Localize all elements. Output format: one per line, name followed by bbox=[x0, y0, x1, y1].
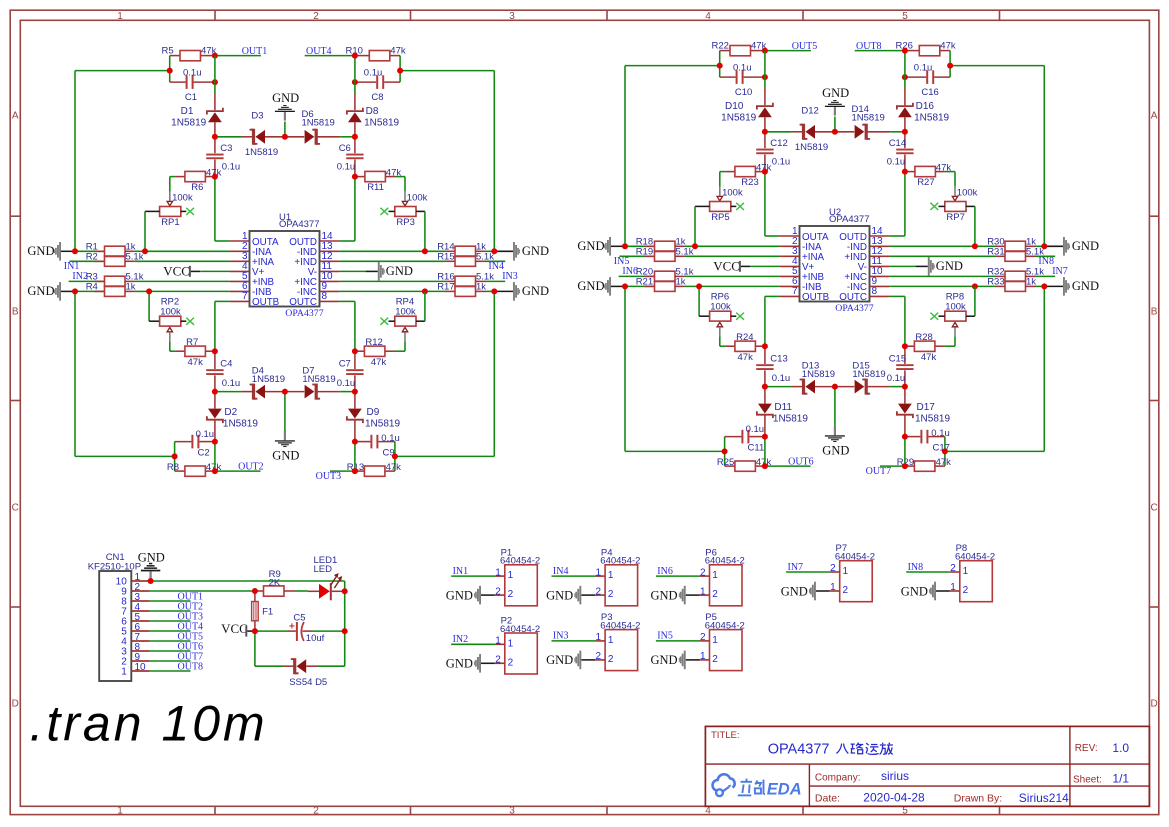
junction R1 left bbox=[72, 248, 78, 254]
power GND P7 bbox=[781, 582, 830, 601]
wire to D4 bbox=[215, 391, 242, 393]
svg-text:1: 1 bbox=[508, 570, 514, 581]
wire pin13 bbox=[889, 245, 995, 247]
svg-text:1k: 1k bbox=[126, 282, 136, 293]
svg-text:RP3: RP3 bbox=[396, 217, 414, 228]
wire pin5 bbox=[135, 280, 230, 282]
svg-text:R23: R23 bbox=[741, 177, 758, 188]
svg-text:100k: 100k bbox=[172, 192, 193, 203]
wire top-right loop bbox=[400, 71, 494, 252]
wire CN1 OUT7 bbox=[150, 660, 191, 662]
svg-text:640454-2: 640454-2 bbox=[500, 624, 540, 635]
wire R28 to RP8 bbox=[944, 336, 955, 346]
svg-text:R15: R15 bbox=[437, 252, 454, 263]
svg-text:Sirius214: Sirius214 bbox=[1019, 791, 1069, 805]
resistor R9 2K bbox=[255, 569, 308, 596]
wire pin1 riser bbox=[765, 172, 780, 236]
wire R27 to RP7 bbox=[945, 172, 955, 187]
junction center bottom bbox=[832, 384, 838, 390]
wire C2 parallel bbox=[214, 442, 216, 472]
junction C8 left bbox=[352, 79, 358, 85]
net label IN8 bbox=[1038, 256, 1054, 267]
svg-text:0.1u: 0.1u bbox=[381, 433, 400, 444]
fuse F1 bbox=[252, 591, 274, 631]
svg-text:OPA4377: OPA4377 bbox=[829, 214, 870, 225]
junction CN1 pin1 bbox=[148, 578, 154, 584]
wire OUT3 bbox=[330, 470, 355, 472]
svg-text:OUT2: OUT2 bbox=[238, 462, 264, 473]
svg-text:5: 5 bbox=[902, 11, 908, 22]
svg-text:10uf: 10uf bbox=[306, 633, 325, 644]
resistor R29 47k bbox=[897, 457, 951, 471]
wire C11 parallel bbox=[764, 437, 766, 467]
wire IN8 to P8 bbox=[906, 571, 950, 573]
potentiometer RP5 100k bbox=[695, 187, 743, 224]
potentiometer RP6 100k bbox=[699, 292, 736, 337]
net label OUT7 bbox=[866, 466, 892, 477]
svg-text:VCC: VCC bbox=[713, 258, 740, 273]
svg-text:2K: 2K bbox=[269, 578, 281, 589]
svg-text:R24: R24 bbox=[736, 332, 753, 343]
junction center bottom bbox=[282, 389, 288, 395]
resistor R20 5.1k bbox=[619, 267, 694, 282]
net label OUT8 CN1 bbox=[178, 662, 204, 673]
junction R9 left bbox=[252, 588, 258, 594]
svg-text:0.1u: 0.1u bbox=[337, 378, 356, 389]
svg-text:1N5819: 1N5819 bbox=[914, 112, 949, 123]
svg-text:C3: C3 bbox=[220, 143, 232, 154]
junction R4 right bbox=[146, 288, 152, 294]
wire OUT node down bbox=[214, 56, 216, 93]
net label OUT4 bbox=[306, 46, 332, 57]
wire C2 left corner bbox=[174, 442, 176, 457]
junction R12 left bbox=[352, 348, 358, 354]
svg-text:GND: GND bbox=[822, 86, 849, 100]
junction D16 bottom bbox=[902, 129, 908, 135]
wire bottom-left loop bbox=[625, 450, 725, 452]
net label IN6 bbox=[622, 266, 638, 277]
junction R1 right bbox=[142, 248, 148, 254]
wire top-left loop bbox=[75, 71, 170, 252]
svg-text:2: 2 bbox=[495, 655, 501, 666]
svg-text:GND: GND bbox=[138, 550, 165, 564]
net label IN2 bbox=[72, 271, 88, 282]
wire R26 right to loop bbox=[949, 51, 951, 78]
net label OUT1 bbox=[242, 46, 268, 57]
wire RP1 to R1 node bbox=[144, 211, 146, 251]
wire CN1 OUT8 bbox=[150, 670, 191, 672]
wire top-left loop bbox=[625, 66, 720, 247]
svg-text:Drawn By:: Drawn By: bbox=[954, 793, 1002, 805]
junction R33 left bbox=[972, 283, 978, 289]
wire IN1 to P1 bbox=[451, 575, 495, 577]
svg-text:R21: R21 bbox=[636, 277, 653, 288]
svg-text:D3: D3 bbox=[251, 110, 263, 121]
power GND row R33 bbox=[1044, 277, 1099, 296]
svg-text:OUT3: OUT3 bbox=[316, 471, 342, 482]
svg-text:1N5819: 1N5819 bbox=[364, 117, 399, 128]
svg-text:100k: 100k bbox=[395, 306, 416, 317]
capacitor C9 0.1u bbox=[355, 433, 400, 458]
net label IN7 P7 bbox=[788, 562, 804, 573]
power VCC port CN1 bbox=[221, 621, 255, 637]
node OUT8 junction bbox=[902, 48, 908, 54]
power GND P8 bbox=[901, 582, 950, 601]
resistor R1 1k bbox=[75, 242, 145, 257]
svg-text:.tran 10m: .tran 10m bbox=[30, 695, 268, 751]
svg-text:1N5819: 1N5819 bbox=[773, 413, 808, 424]
wire pin2 bbox=[145, 250, 230, 252]
svg-text:2: 2 bbox=[843, 585, 849, 596]
wire RP2 to R7 bbox=[170, 341, 176, 351]
resistor R26 47k bbox=[896, 40, 956, 56]
net label OUT7 CN1 bbox=[178, 652, 204, 663]
svg-text:2: 2 bbox=[963, 585, 969, 596]
svg-text:0.1u: 0.1u bbox=[931, 428, 950, 439]
svg-text:GND: GND bbox=[27, 244, 54, 258]
capacitor C2 0.1u bbox=[175, 429, 215, 458]
svg-text:2: 2 bbox=[508, 657, 514, 668]
junction C5 right bbox=[342, 628, 348, 634]
ground GND top earth bbox=[272, 91, 299, 137]
svg-text:2: 2 bbox=[508, 589, 514, 600]
capacitor C14 0.1u bbox=[887, 132, 914, 172]
svg-text:D: D bbox=[1150, 699, 1157, 710]
svg-text:100k: 100k bbox=[710, 301, 731, 312]
wire R6 to RP1 bbox=[170, 177, 176, 192]
resistor R25 47k bbox=[717, 457, 772, 471]
potentiometer RP3 100k bbox=[389, 192, 428, 229]
net label IN7 bbox=[1052, 266, 1068, 277]
svg-text:47k: 47k bbox=[386, 462, 402, 473]
svg-text:IN3: IN3 bbox=[553, 631, 569, 642]
diode D5 SS54 bbox=[255, 659, 345, 688]
svg-text:C13: C13 bbox=[770, 354, 787, 365]
LED LED1 bbox=[308, 555, 345, 600]
diode D4 1N5819 bbox=[241, 365, 285, 398]
wire CN1 OUT5 bbox=[150, 640, 191, 642]
svg-text:OPA4377: OPA4377 bbox=[768, 742, 834, 758]
wire CN1 pin1 GND net bbox=[150, 581, 345, 591]
svg-text:1: 1 bbox=[117, 806, 123, 817]
svg-text:1N5819: 1N5819 bbox=[245, 147, 278, 158]
wire pin12 bbox=[889, 255, 995, 257]
svg-text:OUTB: OUTB bbox=[252, 297, 280, 308]
junction C1 right bbox=[212, 79, 218, 85]
svg-text:47k: 47k bbox=[940, 40, 956, 51]
junction R27 left bbox=[902, 169, 908, 175]
wire to D13 bbox=[765, 386, 792, 388]
capacitor C6 0.1u bbox=[337, 137, 364, 177]
wire R23 to RP5 bbox=[720, 172, 726, 187]
svg-text:D2: D2 bbox=[224, 407, 237, 418]
wire D7 to C7 bbox=[340, 391, 355, 393]
svg-text:7: 7 bbox=[242, 291, 248, 302]
svg-text:GND: GND bbox=[27, 284, 54, 298]
logo LCEDA bbox=[713, 774, 802, 798]
svg-text:C14: C14 bbox=[889, 138, 906, 149]
wire IN2 to P2 bbox=[451, 643, 495, 645]
svg-text:1N5819: 1N5819 bbox=[302, 118, 335, 129]
connector P1 640454-2 bbox=[495, 547, 540, 606]
junction LED1 right bbox=[342, 588, 348, 594]
svg-text:GND: GND bbox=[1072, 239, 1099, 253]
svg-text:D8: D8 bbox=[366, 106, 379, 117]
wire D6 to D8 bbox=[340, 136, 355, 138]
svg-text:1N5819: 1N5819 bbox=[915, 413, 950, 424]
svg-text:1: 1 bbox=[495, 567, 501, 578]
svg-text:47k: 47k bbox=[371, 357, 387, 368]
wire pin14 riser bbox=[889, 172, 905, 236]
junction loop top-right bbox=[947, 63, 953, 69]
net label OUT2 CN1 bbox=[178, 602, 204, 613]
svg-text:0.1u: 0.1u bbox=[364, 67, 383, 78]
svg-text:RP1: RP1 bbox=[161, 217, 179, 228]
svg-text:GND: GND bbox=[577, 239, 604, 253]
svg-text:GND: GND bbox=[546, 588, 573, 602]
svg-text:C7: C7 bbox=[339, 359, 351, 370]
no-connect X RP4 bbox=[380, 318, 388, 325]
svg-text:1N5819: 1N5819 bbox=[852, 113, 885, 124]
junction R14 left bbox=[422, 248, 428, 254]
svg-text:D11: D11 bbox=[774, 402, 792, 413]
svg-text:0.1u: 0.1u bbox=[733, 62, 752, 73]
diode D2 1N5819 bbox=[207, 392, 258, 442]
junction R28 left bbox=[902, 343, 908, 349]
svg-text:1/1: 1/1 bbox=[1112, 771, 1129, 785]
junction R17 left bbox=[422, 288, 428, 294]
connector P2 640454-2 bbox=[495, 616, 540, 675]
junction loop bottom-right bbox=[392, 453, 398, 459]
junction loop top-right bbox=[397, 68, 403, 74]
spice directive .tran 10m bbox=[30, 695, 268, 751]
capacitor C15 0.1u bbox=[887, 346, 914, 386]
svg-text:OUT8: OUT8 bbox=[856, 41, 882, 52]
svg-text:VCC: VCC bbox=[221, 621, 248, 636]
svg-text:2: 2 bbox=[313, 11, 319, 22]
junction D1 bottom bbox=[212, 134, 218, 140]
svg-text:R11: R11 bbox=[367, 182, 384, 193]
svg-text:640454-2: 640454-2 bbox=[705, 556, 745, 567]
junction loop bottom-left bbox=[722, 448, 728, 454]
svg-text:KF2510-10P: KF2510-10P bbox=[88, 562, 141, 573]
svg-text:RP7: RP7 bbox=[946, 212, 964, 223]
diode D8 1N5819 bbox=[347, 93, 400, 137]
svg-text:2: 2 bbox=[596, 586, 602, 597]
svg-text:1: 1 bbox=[121, 666, 127, 677]
wire D15 to C15 bbox=[890, 386, 905, 388]
svg-text:C12: C12 bbox=[770, 138, 787, 149]
svg-text:1N5819: 1N5819 bbox=[365, 418, 400, 429]
svg-text:10: 10 bbox=[135, 662, 147, 673]
capacitor C3 0.1u bbox=[206, 137, 240, 177]
svg-text:GND: GND bbox=[651, 653, 678, 667]
wire CN1 OUT1 bbox=[150, 600, 191, 602]
resistor R15 5.1k bbox=[437, 252, 505, 267]
resistor R11 47k bbox=[355, 168, 401, 193]
resistor R6 47k bbox=[175, 168, 221, 193]
diode D15 1N5819 bbox=[835, 360, 890, 393]
svg-text:A: A bbox=[12, 111, 19, 122]
wire R4 to RP2 bbox=[148, 291, 150, 321]
net label OUT6 CN1 bbox=[178, 642, 204, 653]
wire CN1 OUT2 bbox=[150, 610, 191, 612]
capacitor C12 0.1u bbox=[756, 132, 790, 172]
junction R18 right bbox=[692, 243, 698, 249]
connector CN1 KF2510-10P bbox=[88, 552, 150, 681]
no-connect X RP2 bbox=[186, 318, 194, 325]
svg-text:R19: R19 bbox=[636, 247, 653, 258]
resistor R18 1k bbox=[625, 237, 695, 252]
power GND row R14 bbox=[494, 242, 549, 261]
wire R21 to RP6 bbox=[698, 286, 700, 316]
wire D14 to D16 bbox=[890, 131, 905, 133]
svg-text:R4: R4 bbox=[86, 282, 98, 293]
svg-text:1N5819: 1N5819 bbox=[852, 369, 885, 380]
wire pin6 bbox=[149, 290, 230, 292]
svg-text:100k: 100k bbox=[160, 306, 181, 317]
svg-text:47k: 47k bbox=[188, 357, 204, 368]
svg-text:1k: 1k bbox=[1026, 277, 1036, 288]
power GND input row R21 bbox=[577, 277, 625, 296]
ground GND bottom earth bbox=[822, 387, 849, 458]
wire IN5 to P5 bbox=[656, 640, 700, 642]
junction loop bottom-left bbox=[172, 453, 178, 459]
resistor R19 5.1k bbox=[619, 247, 693, 262]
net label IN1 P1 bbox=[453, 566, 469, 577]
ground GND V- flag bbox=[889, 257, 963, 276]
wire D5 right up bbox=[344, 631, 346, 666]
no-connect X RP8 bbox=[930, 313, 938, 320]
wire R12 to RP4 bbox=[394, 341, 405, 351]
svg-text:0.1u: 0.1u bbox=[887, 373, 906, 384]
resistor R32 5.1k bbox=[987, 267, 1055, 282]
wire IN7 to P7 bbox=[786, 571, 830, 573]
svg-text:OUT8: OUT8 bbox=[178, 662, 204, 673]
wire OUT4 node down bbox=[354, 56, 356, 93]
wire R10 right to loop bbox=[399, 56, 401, 83]
junction R33 right bbox=[1041, 283, 1047, 289]
svg-text:0.1u: 0.1u bbox=[772, 157, 791, 168]
svg-text:0.1u: 0.1u bbox=[914, 62, 933, 73]
svg-text:R6: R6 bbox=[191, 182, 203, 193]
junction D17 bottom bbox=[902, 434, 908, 440]
wire OUT7 bbox=[880, 465, 905, 467]
svg-text:IN4: IN4 bbox=[553, 566, 569, 577]
power VCC port bbox=[163, 263, 230, 278]
svg-text:1: 1 bbox=[712, 570, 718, 581]
potentiometer RP1 100k bbox=[145, 192, 193, 229]
capacitor C4 0.1u bbox=[206, 351, 240, 391]
svg-text:OUT5: OUT5 bbox=[792, 41, 818, 52]
net label IN8 P8 bbox=[908, 562, 924, 573]
svg-text:2: 2 bbox=[830, 563, 836, 574]
svg-text:OPA4377: OPA4377 bbox=[835, 303, 873, 314]
resistor R8 47k bbox=[167, 462, 222, 476]
net label OUT8 bbox=[856, 41, 882, 52]
net label OUT5 CN1 bbox=[178, 632, 204, 643]
svg-text:2: 2 bbox=[950, 563, 956, 574]
svg-text:1k: 1k bbox=[476, 282, 486, 293]
junction center top bbox=[832, 129, 838, 135]
junction R8 right bbox=[212, 468, 218, 474]
junction R29 left bbox=[902, 463, 908, 469]
svg-text:EDA: EDA bbox=[767, 781, 802, 799]
title text OPA4377 bbox=[768, 742, 834, 758]
svg-text:100k: 100k bbox=[945, 301, 966, 312]
svg-text:0.1u: 0.1u bbox=[183, 67, 202, 78]
svg-text:GND: GND bbox=[651, 588, 678, 602]
wire C17 parallel bbox=[904, 437, 906, 467]
resistor R10 47k bbox=[346, 45, 406, 61]
svg-text:OUT7: OUT7 bbox=[866, 466, 892, 477]
wire RP7 to R14 node bbox=[974, 206, 976, 246]
net label IN4 P4 bbox=[553, 566, 569, 577]
power GND row R17 bbox=[494, 282, 549, 301]
junction R4 left bbox=[72, 288, 78, 294]
wire pin10 bbox=[339, 280, 445, 282]
svg-text:2: 2 bbox=[712, 654, 718, 665]
svg-text:D12: D12 bbox=[801, 105, 818, 116]
svg-text:GND: GND bbox=[522, 284, 549, 298]
svg-text:OUTC: OUTC bbox=[289, 297, 317, 308]
net label IN5 bbox=[614, 256, 630, 267]
net label OUT5 bbox=[792, 41, 818, 52]
svg-text:1N5819: 1N5819 bbox=[302, 374, 335, 385]
svg-text:640454-2: 640454-2 bbox=[500, 556, 540, 567]
wire IN6 to P6 bbox=[656, 575, 700, 577]
svg-text:2020-04-28: 2020-04-28 bbox=[863, 791, 925, 805]
svg-text:R31: R31 bbox=[987, 247, 1004, 258]
ground GND CN1 earth bbox=[138, 550, 165, 581]
wire right loop bottom bbox=[493, 291, 495, 456]
capacitor C10 0.1u bbox=[720, 62, 765, 98]
svg-text:640454-2: 640454-2 bbox=[600, 621, 640, 632]
potentiometer RP7 100k bbox=[939, 187, 978, 224]
svg-text:C2: C2 bbox=[198, 447, 210, 458]
wire C9 parallel bbox=[354, 442, 356, 472]
svg-text:R7: R7 bbox=[186, 337, 198, 348]
no-connect X RP7 bbox=[930, 203, 938, 210]
svg-text:C1: C1 bbox=[185, 92, 197, 103]
title Date bbox=[815, 791, 925, 805]
svg-text:GND: GND bbox=[446, 588, 473, 602]
junction R6 right bbox=[212, 174, 218, 180]
no-connect X RP1 bbox=[186, 208, 194, 215]
junction C4 bottom bbox=[212, 389, 218, 395]
svg-text:C15: C15 bbox=[889, 354, 906, 365]
svg-text:SS54 D5: SS54 D5 bbox=[289, 677, 327, 688]
diode D14 1N5819 bbox=[835, 104, 890, 139]
wire pin8 riser bbox=[889, 296, 905, 346]
svg-text:GND: GND bbox=[272, 91, 299, 105]
svg-text:IN3: IN3 bbox=[502, 271, 518, 282]
svg-text:IN2: IN2 bbox=[453, 634, 469, 645]
no-connect X RP5 bbox=[736, 203, 744, 210]
svg-text:3: 3 bbox=[509, 11, 515, 22]
wire C17 right corner bbox=[944, 437, 946, 452]
svg-text:1.0: 1.0 bbox=[1112, 741, 1129, 755]
svg-text:GND: GND bbox=[522, 244, 549, 258]
wire pin14 riser bbox=[339, 177, 355, 241]
svg-text:IN6: IN6 bbox=[657, 566, 673, 577]
svg-text:2: 2 bbox=[608, 654, 614, 665]
svg-text:1: 1 bbox=[508, 638, 514, 649]
potentiometer RP8 100k bbox=[939, 292, 975, 337]
wire to R25 bbox=[724, 451, 726, 466]
wire R5 left to loop bbox=[169, 56, 171, 83]
net label OUT4 CN1 bbox=[178, 622, 204, 633]
